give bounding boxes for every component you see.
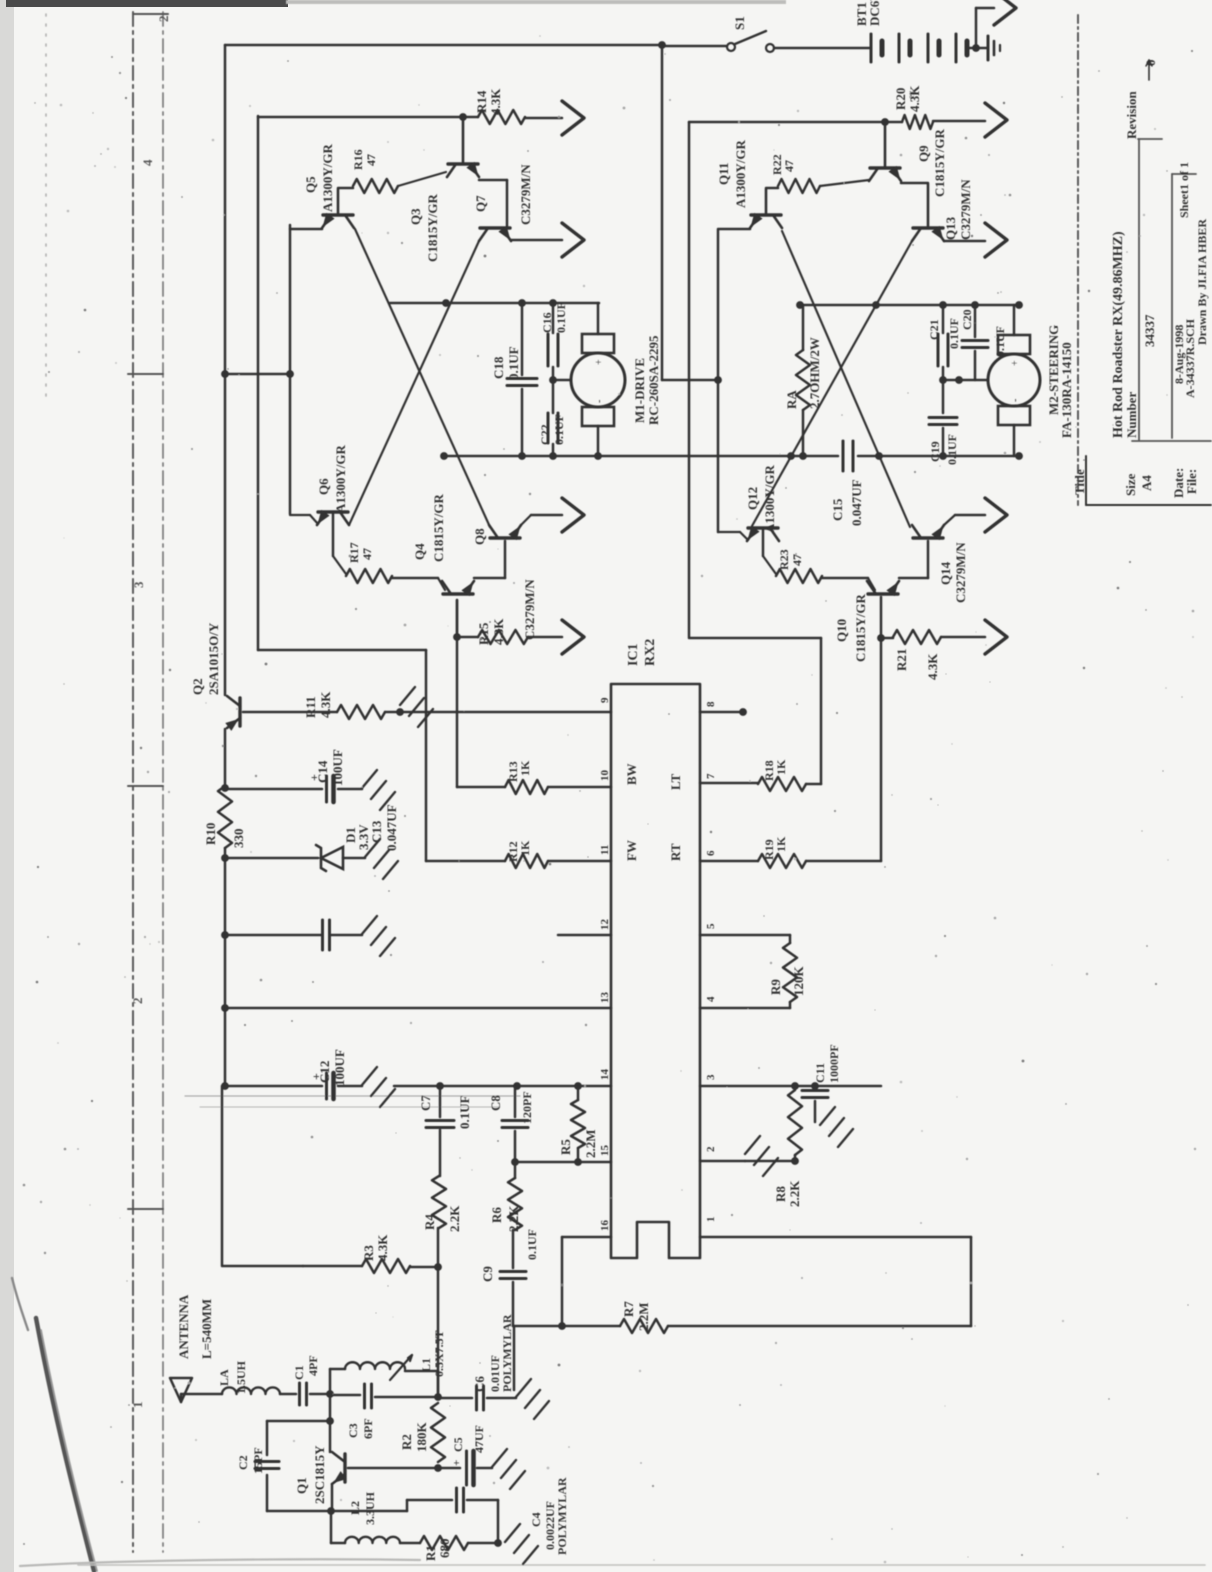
resistor R5 2.2M bbox=[577, 1086, 580, 1100]
svg-text:2: 2 bbox=[130, 998, 145, 1005]
battery BT1 DC6V bbox=[870, 34, 873, 62]
wire: Q10 emitter to Q14 base bbox=[899, 577, 928, 580]
svg-text:+: + bbox=[594, 359, 605, 365]
capacitor C14 100UF bbox=[325, 776, 328, 802]
wire: V+ top rail py45 bbox=[225, 44, 662, 47]
ground: R11 tap bbox=[396, 708, 404, 716]
svg-text:C14: C14 bbox=[315, 760, 330, 783]
inductor LA 1.5UH bbox=[222, 1387, 280, 1394]
svg-text:R20: R20 bbox=[893, 88, 908, 110]
svg-text:C1: C1 bbox=[292, 1365, 306, 1380]
resistor R12 1K (pin 11) bbox=[426, 860, 505, 863]
node: C16 top bbox=[549, 299, 557, 307]
svg-text:R16: R16 bbox=[351, 149, 365, 170]
svg-text:Revision: Revision bbox=[1124, 91, 1139, 139]
svg-text:1K: 1K bbox=[774, 836, 788, 852]
svg-text:C3279M/N: C3279M/N bbox=[953, 542, 968, 603]
svg-text:3.3UH: 3.3UH bbox=[363, 1491, 377, 1525]
capacitor C11 1000PF bbox=[814, 1086, 817, 1090]
svg-text:Q9: Q9 bbox=[916, 145, 931, 162]
svg-text:1: 1 bbox=[705, 1217, 717, 1223]
svg-text:Q3: Q3 bbox=[408, 208, 423, 225]
svg-text:C16: C16 bbox=[540, 312, 554, 333]
resistor R15 4.3K line + arrow bbox=[457, 636, 478, 639]
transistor Q8 C3279M/N bbox=[490, 536, 520, 539]
svg-text:C5: C5 bbox=[451, 1437, 465, 1452]
transistor Q13 C3279M/N bbox=[913, 226, 943, 229]
svg-text:IC1: IC1 bbox=[626, 643, 641, 666]
node: Q1 collector / tank bbox=[326, 1390, 334, 1398]
wire: pin 1 loop bbox=[700, 1236, 971, 1239]
antenna L=540MM bbox=[170, 1378, 192, 1402]
svg-text:11: 11 bbox=[599, 845, 611, 855]
ground: C13 bbox=[362, 916, 377, 934]
svg-text:FA-130RA-14150: FA-130RA-14150 bbox=[1059, 342, 1074, 438]
svg-text:13: 13 bbox=[599, 992, 611, 1004]
fold crease bottom-left bbox=[36, 1318, 94, 1571]
wire: R14 line bbox=[258, 116, 463, 119]
wire: R20 line bbox=[689, 121, 902, 124]
svg-text:C1815Y/GR: C1815Y/GR bbox=[425, 194, 440, 263]
svg-text:A-34337R.SCH: A-34337R.SCH bbox=[1183, 318, 1197, 398]
node: C14 branch bbox=[221, 784, 229, 792]
svg-text:4: 4 bbox=[140, 159, 155, 166]
capacitor C7 0.1UF bbox=[436, 1082, 444, 1090]
node: C21 top bbox=[939, 301, 947, 309]
wire: switch to battery bbox=[774, 47, 869, 50]
node: Q3 base stub bbox=[459, 113, 467, 121]
svg-text:47: 47 bbox=[782, 160, 796, 172]
wire: pin 16 column bbox=[562, 1236, 611, 1239]
wire: Q8 emitter to arrow bbox=[521, 515, 531, 525]
svg-text:4.3K: 4.3K bbox=[925, 653, 940, 680]
svg-text:R3: R3 bbox=[361, 1245, 376, 1261]
svg-text:FW: FW bbox=[624, 840, 639, 861]
scan speckle bbox=[401, 242, 403, 244]
svg-text:47UF: 47UF bbox=[472, 1425, 486, 1453]
svg-text:100UF: 100UF bbox=[330, 749, 345, 786]
inductor L1 0.5X7.5T tank loop bbox=[329, 1369, 332, 1394]
wire: node to C6 bbox=[438, 1397, 472, 1400]
capacitor C8 120PF bbox=[514, 1086, 517, 1117]
transistor Q6 A1300Y/GR bbox=[290, 514, 310, 516]
svg-text:C22: C22 bbox=[538, 424, 552, 445]
svg-text:180K: 180K bbox=[414, 1422, 429, 1453]
svg-text:R2: R2 bbox=[399, 1434, 414, 1450]
svg-text:16: 16 bbox=[599, 1220, 611, 1232]
svg-text:0.047UF: 0.047UF bbox=[849, 479, 864, 526]
resistor R11 4.3K bbox=[337, 705, 385, 719]
svg-text:C3279M/N: C3279M/N bbox=[958, 179, 973, 240]
svg-text:Number: Number bbox=[1124, 392, 1139, 438]
ground: C12 bbox=[362, 1067, 377, 1085]
svg-text:330: 330 bbox=[231, 829, 246, 849]
transistor Q9 C1815Y/GR bbox=[870, 166, 900, 169]
title block border bbox=[1077, 15, 1079, 505]
svg-text:C18: C18 bbox=[491, 356, 506, 379]
svg-text:Size: Size bbox=[1123, 473, 1138, 496]
wire: R7 line bbox=[513, 1325, 562, 1328]
svg-text:9: 9 bbox=[599, 697, 611, 703]
svg-text:Q2: Q2 bbox=[190, 678, 205, 695]
svg-text:47: 47 bbox=[360, 548, 374, 560]
wire: R14/FW rail (px258) bbox=[257, 116, 260, 650]
wire: V+ rail vertical px225 down to Q2 bbox=[224, 45, 227, 695]
wire: R13 column (from Q4 collector) bbox=[456, 600, 459, 787]
svg-text:C9: C9 bbox=[480, 1266, 495, 1282]
wire: Q4 emitter to Q8 base bbox=[474, 577, 505, 580]
svg-text:R23: R23 bbox=[777, 549, 791, 570]
svg-text:R5: R5 bbox=[558, 1139, 573, 1155]
node: C12/pin14 line bbox=[221, 1082, 229, 1090]
svg-text:C3279M/N: C3279M/N bbox=[522, 579, 537, 640]
svg-text:C1815Y/GR: C1815Y/GR bbox=[431, 494, 446, 563]
svg-text:3: 3 bbox=[131, 581, 146, 588]
svg-text:C2: C2 bbox=[236, 1455, 250, 1470]
resistor RA 2.7OHM/2W bbox=[802, 305, 805, 350]
svg-text:15PF: 15PF bbox=[251, 1447, 265, 1474]
svg-text:1K: 1K bbox=[518, 840, 532, 856]
svg-text:2.2K: 2.2K bbox=[506, 1205, 521, 1232]
transistor Q4 C1815Y/GR bbox=[438, 578, 445, 590]
svg-text:2.2K: 2.2K bbox=[787, 1180, 802, 1207]
svg-text:10: 10 bbox=[599, 770, 611, 782]
wire: D1 branch bbox=[225, 857, 318, 860]
svg-text:1: 1 bbox=[130, 1402, 145, 1409]
svg-text:100UF: 100UF bbox=[332, 1049, 347, 1086]
resistor R21 4.3K line + arrow bbox=[881, 637, 893, 640]
wire: R18 column (px821) bbox=[689, 637, 821, 640]
svg-text:4PF: 4PF bbox=[306, 1355, 320, 1376]
transistor Q12 A1300Y/GR bbox=[718, 531, 740, 533]
svg-text:POLYMYLAR: POLYMYLAR bbox=[555, 1477, 569, 1555]
svg-text:L=540MM: L=540MM bbox=[199, 1299, 214, 1359]
svg-text:C6: C6 bbox=[472, 1376, 487, 1392]
wire: M2 top rail py305 bbox=[802, 304, 1019, 307]
transistor Q11 A1300Y/GR bbox=[718, 228, 750, 231]
svg-text:4.3K: 4.3K bbox=[488, 88, 503, 115]
node: battery minus junction bbox=[972, 44, 980, 52]
wire: rail to switch bbox=[662, 45, 726, 48]
wire: R20 rail (px689) bbox=[688, 122, 691, 637]
capacitor C21 0.1UF bbox=[942, 305, 945, 333]
svg-text:1000PF: 1000PF bbox=[827, 1044, 841, 1083]
diagonal: Q11 collector cross bbox=[782, 231, 910, 527]
wire: Q9 emitter to Q13 base bbox=[901, 182, 928, 185]
svg-text:4.3K: 4.3K bbox=[907, 85, 922, 112]
wire: main line to C3 bbox=[330, 1394, 360, 1397]
svg-text:C15: C15 bbox=[830, 498, 845, 521]
svg-text:120PF: 120PF bbox=[520, 1091, 534, 1124]
transistor Q1 2SC1815Y bbox=[343, 1454, 346, 1482]
svg-text:Q10: Q10 bbox=[834, 619, 849, 642]
svg-text:R7: R7 bbox=[621, 1301, 636, 1317]
wire: pin 8 stub bbox=[700, 711, 743, 714]
wire: Q14 emitter to arrow bbox=[944, 515, 955, 525]
diagonal: Q13 collector cross bbox=[752, 241, 912, 526]
wire: M1 top rail py303 bbox=[390, 302, 599, 305]
svg-text:C7: C7 bbox=[418, 1095, 433, 1111]
resistor R23 47 bbox=[763, 556, 776, 574]
svg-text:Q6: Q6 bbox=[316, 478, 331, 495]
capacitor C15 0.047UF (series) bbox=[842, 441, 845, 471]
svg-text:-: - bbox=[1010, 399, 1021, 402]
resistor R18 1K (pin 7) bbox=[700, 782, 758, 785]
transistor Q5 A1300Y/GR bbox=[290, 228, 322, 231]
svg-text:RT: RT bbox=[668, 843, 683, 861]
wire: rail corner to R3 line bbox=[221, 1086, 224, 1265]
svg-text:4.3K: 4.3K bbox=[375, 1234, 390, 1261]
svg-text:ANTENNA: ANTENNA bbox=[176, 1294, 191, 1359]
resistor R13 1K (pin 10) bbox=[457, 786, 505, 789]
svg-text:C1815Y/GR: C1815Y/GR bbox=[853, 594, 868, 663]
svg-text:C11: C11 bbox=[813, 1063, 827, 1083]
resistor R16 47 bbox=[338, 187, 353, 190]
wire: R1 to ground bbox=[468, 1542, 498, 1545]
svg-text:0.1UF: 0.1UF bbox=[554, 302, 568, 333]
resistor R22 47 bbox=[766, 187, 778, 190]
wire: R12 column from py650 bbox=[258, 649, 426, 652]
svg-text:DC6V: DC6V bbox=[867, 0, 882, 26]
resistor R19 1K (pin 6) bbox=[700, 860, 758, 863]
svg-text:2.2K: 2.2K bbox=[447, 1205, 462, 1232]
svg-text:File:: File: bbox=[1184, 469, 1199, 494]
node: motor tap bbox=[549, 376, 557, 384]
svg-text:2SC1815Y: 2SC1815Y bbox=[312, 1445, 327, 1504]
svg-text:0.1UF: 0.1UF bbox=[525, 1229, 539, 1260]
capacitor C19 0.1UF bbox=[942, 380, 945, 413]
svg-text:C20: C20 bbox=[960, 309, 974, 330]
wire: emitter rail feed bbox=[221, 370, 229, 378]
svg-text:R15: R15 bbox=[476, 622, 491, 645]
svg-text:BW: BW bbox=[624, 763, 639, 785]
ground: D1 bbox=[365, 839, 380, 857]
svg-text:0.047UF: 0.047UF bbox=[384, 804, 399, 851]
svg-text:L1: L1 bbox=[419, 1358, 433, 1372]
svg-text:2.2M: 2.2M bbox=[583, 1129, 598, 1158]
svg-text:R9: R9 bbox=[768, 979, 783, 995]
wire: line to C12 bbox=[225, 1085, 322, 1088]
svg-text:C19: C19 bbox=[928, 441, 942, 462]
wire: long line to IC pin 13 bbox=[225, 1007, 611, 1010]
svg-text:8: 8 bbox=[705, 701, 717, 707]
svg-text:C3279M/N: C3279M/N bbox=[518, 164, 533, 225]
node: Q9 base stub bbox=[881, 118, 889, 126]
svg-text:47: 47 bbox=[790, 554, 804, 566]
resistor R17 47 bbox=[333, 556, 346, 574]
svg-text:Q12: Q12 bbox=[745, 487, 760, 510]
wire: rail below R10 bbox=[224, 848, 227, 1086]
diode D1 3.3V zener bbox=[316, 845, 326, 871]
wire: C9 bottom continues to ground bbox=[513, 1326, 516, 1390]
svg-text:RC-260SA-2295: RC-260SA-2295 bbox=[646, 335, 661, 425]
resistor R3 4.3K bbox=[303, 1265, 362, 1268]
transistor Q14 C3279M/N bbox=[913, 536, 943, 539]
wire: C13 branch bbox=[225, 934, 322, 937]
node: R2/R4/C6 node bbox=[434, 1393, 442, 1401]
motor M1 DRIVE RC-260SA-2295 bbox=[571, 353, 625, 407]
svg-text:C8: C8 bbox=[488, 1095, 503, 1111]
svg-text:2.2M: 2.2M bbox=[636, 1302, 651, 1331]
capacitor C9 0.1UF bbox=[512, 1230, 515, 1268]
svg-text:Q11: Q11 bbox=[716, 163, 731, 185]
svg-text:R6: R6 bbox=[489, 1207, 504, 1223]
svg-text:C21: C21 bbox=[927, 319, 941, 340]
ground: C6/C9 bbox=[516, 1379, 531, 1397]
svg-text:-: - bbox=[594, 400, 605, 403]
node: pin13 line bbox=[221, 1004, 229, 1012]
transistor Q7 C3279M/N bbox=[480, 226, 510, 229]
wire: rail below Q2 bbox=[224, 729, 227, 786]
wire: C14 branch bbox=[225, 788, 322, 791]
svg-text:6PF: 6PF bbox=[361, 1418, 375, 1439]
ground: C11 bbox=[820, 1107, 835, 1125]
svg-text:A1300Y/GR: A1300Y/GR bbox=[733, 140, 748, 209]
svg-text:R17: R17 bbox=[347, 542, 361, 563]
resistor R14 4.3K + arrow bbox=[463, 116, 478, 119]
transistor Q3 C1815Y/GR bbox=[448, 162, 478, 165]
wire: Q2 base line to pin 9 (R11) bbox=[243, 711, 337, 714]
svg-text:1K: 1K bbox=[518, 760, 532, 776]
svg-text:0.1UF: 0.1UF bbox=[506, 346, 521, 380]
node: R2 bottom bbox=[434, 1464, 442, 1472]
svg-text:5: 5 bbox=[705, 923, 717, 929]
capacitor C13 0.047UF bbox=[321, 920, 324, 950]
resistor R1 680 bbox=[400, 1542, 420, 1545]
svg-text:R10: R10 bbox=[203, 823, 218, 845]
svg-text:120K: 120K bbox=[791, 966, 806, 997]
node: R15 junction bbox=[453, 633, 461, 641]
svg-text:Q8: Q8 bbox=[472, 528, 487, 545]
svg-text:M1-DRIVE: M1-DRIVE bbox=[632, 358, 647, 423]
wire: feed to M2 emitter rail bbox=[662, 379, 718, 382]
svg-text:0.1UF: 0.1UF bbox=[947, 318, 961, 349]
svg-text:7: 7 bbox=[705, 773, 717, 779]
svg-text:R8: R8 bbox=[773, 1186, 788, 1202]
node: M2 motor tap bbox=[939, 376, 947, 384]
resistor R2 180K bbox=[431, 1403, 445, 1462]
wire: line continues to IC pin 14 bbox=[394, 1085, 611, 1088]
svg-text:A1300Y/GR: A1300Y/GR bbox=[320, 144, 335, 213]
svg-text:47: 47 bbox=[364, 154, 378, 166]
svg-text:+: + bbox=[451, 1460, 463, 1466]
ground: C5 bbox=[492, 1449, 507, 1467]
capacitor C1 4PF bbox=[298, 1383, 301, 1405]
capacitor C3 6PF (series in line) bbox=[363, 1384, 366, 1408]
svg-text:C12: C12 bbox=[317, 1061, 332, 1083]
motor M2-STEERING FA-130RA-14150 bbox=[988, 354, 1040, 406]
svg-text:2: 2 bbox=[156, 16, 171, 23]
wire: S1 branch down (px662) bbox=[661, 45, 664, 380]
wire: pin 12 stub bbox=[558, 934, 611, 937]
transistor Q2 2SA1015O/Y bbox=[238, 698, 241, 726]
svg-text:0.1UF: 0.1UF bbox=[552, 414, 566, 445]
svg-text:Sheet1 of 1: Sheet1 of 1 bbox=[1177, 162, 1191, 218]
svg-text:1.5UH: 1.5UH bbox=[234, 1360, 248, 1394]
ground: battery bbox=[976, 47, 988, 50]
resistor R9 120K (pins 5-4) bbox=[700, 934, 790, 937]
wire: Q1 emitter down bbox=[331, 1484, 334, 1511]
svg-text:Q13: Q13 bbox=[943, 216, 958, 240]
sheet border zone lines bbox=[132, 12, 134, 1552]
node: junction top rail / S1 branch bbox=[658, 41, 666, 49]
svg-text:2SA1015O/Y: 2SA1015O/Y bbox=[206, 622, 221, 695]
capacitor C18 0.1UF bbox=[521, 303, 524, 375]
svg-text:Q7: Q7 bbox=[473, 195, 488, 212]
wire: Q10 collector down bbox=[880, 597, 883, 861]
svg-text:2.7OHM/2W: 2.7OHM/2W bbox=[807, 337, 822, 409]
svg-text:L2: L2 bbox=[348, 1501, 362, 1515]
wire: Q1 collector up bbox=[329, 1394, 332, 1452]
capacitor C16 0.1UF bbox=[552, 303, 555, 333]
svg-text:C13: C13 bbox=[369, 820, 384, 843]
svg-text:S1: S1 bbox=[732, 16, 747, 30]
node: R3/R4 junction bbox=[434, 1263, 442, 1271]
wire: coil to C1 bbox=[280, 1393, 296, 1396]
resistor R8 2.2K bbox=[791, 1082, 799, 1090]
diagonal: Q5 collector to Q8 bbox=[355, 229, 490, 527]
node: R21 junction bbox=[877, 634, 885, 642]
svg-text:34337: 34337 bbox=[1142, 314, 1157, 347]
svg-text:A1300Y/GR: A1300Y/GR bbox=[333, 445, 348, 514]
svg-text:Q1: Q1 bbox=[294, 1477, 309, 1494]
capacitor C20 0.1UF bbox=[971, 301, 979, 309]
svg-text:2: 2 bbox=[705, 1146, 717, 1152]
node: C18 top bbox=[518, 299, 526, 307]
svg-text:R4: R4 bbox=[422, 1214, 437, 1230]
wire: emitter to bottom rail bbox=[330, 1511, 333, 1543]
node: emitter node bbox=[327, 1507, 335, 1515]
resistor R7 2.2M bbox=[562, 1325, 620, 1328]
svg-text:12: 12 bbox=[599, 919, 611, 931]
wire: column down to main node bbox=[437, 1267, 440, 1397]
capacitor C5 47UF bbox=[465, 1451, 468, 1485]
svg-text:Title: Title bbox=[1072, 469, 1087, 495]
svg-text:LT: LT bbox=[668, 774, 683, 790]
svg-text:0.1UF: 0.1UF bbox=[945, 434, 959, 465]
node: R5 top bbox=[574, 1082, 582, 1090]
inductor L2 3.3UH bbox=[331, 1542, 345, 1545]
wire: Q1 base line bbox=[348, 1467, 460, 1470]
resistor R4 2.2K bbox=[439, 1130, 442, 1176]
svg-text:A1300Y/GR: A1300Y/GR bbox=[762, 465, 777, 534]
svg-text:R11: R11 bbox=[303, 696, 318, 718]
transistor Q10 C1815Y/GR bbox=[868, 578, 875, 590]
svg-text:RX2: RX2 bbox=[643, 639, 658, 666]
wire: M2 emitter rail (px718) bbox=[717, 230, 720, 532]
wire: riser to terminal arrow bbox=[975, 8, 978, 48]
ground: C14 bbox=[362, 770, 377, 788]
svg-text:R14: R14 bbox=[474, 90, 489, 113]
wire: Q4 collector down bbox=[456, 600, 459, 637]
svg-text:+: + bbox=[1010, 360, 1021, 366]
node: C11 tap bbox=[811, 1082, 819, 1090]
resistor R10 330 (in rail) bbox=[218, 786, 232, 848]
svg-text:RA: RA bbox=[784, 390, 799, 409]
ground: R1 bbox=[505, 1524, 520, 1542]
capacitor C6 0.01UF POLYMYLAR bbox=[475, 1386, 478, 1410]
resistor R20 4.3K + arrow bbox=[902, 115, 933, 129]
svg-text:0.1UF: 0.1UF bbox=[457, 1095, 472, 1129]
resistor R6 2.2K bbox=[514, 1162, 517, 1178]
svg-text:0.1UF: 0.1UF bbox=[993, 326, 1007, 357]
diag crossing dots M2 bbox=[787, 452, 795, 460]
capacitor C22 0.1UF bbox=[552, 380, 555, 413]
svg-text:A4: A4 bbox=[1139, 475, 1154, 491]
node: D1 branch bbox=[221, 854, 229, 862]
svg-text:4.3K: 4.3K bbox=[491, 618, 506, 645]
wire: pin14 node to C8 bbox=[513, 1082, 521, 1090]
